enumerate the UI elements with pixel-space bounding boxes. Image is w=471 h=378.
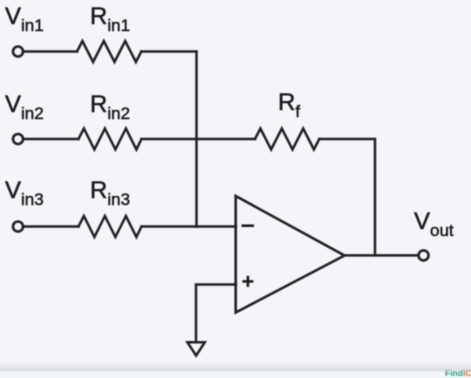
- wire Vin3 to Rin3: [24, 225, 79, 228]
- op-amp plus pin symbol: [242, 280, 253, 283]
- label Rin1: [90, 5, 130, 29]
- label Vin2: [5, 93, 44, 117]
- resistor R_in3: [79, 216, 142, 237]
- label Vin1: [5, 5, 44, 29]
- wire Rf to feedback corner: [319, 139, 375, 255]
- wire non-inverting input: [196, 285, 236, 343]
- resistor R_in1: [77, 41, 141, 62]
- wire Vin1 to Rin1: [24, 50, 78, 53]
- watermark: [445, 368, 471, 378]
- terminal Vout: [419, 250, 429, 260]
- terminal Vin2: [13, 134, 23, 144]
- label Vin3: [5, 179, 44, 203]
- wire bus vertical: [195, 52, 198, 227]
- terminal Vin1: [13, 47, 23, 57]
- wire Rin2 to bus and on to Rf: [142, 138, 256, 141]
- op-amp U1: [236, 196, 345, 313]
- label Rin3: [90, 179, 130, 203]
- label Rf: [278, 91, 300, 115]
- op-amp minus pin symbol: [242, 224, 255, 227]
- terminal Vin3: [13, 222, 23, 232]
- resistor R_f: [255, 129, 319, 150]
- wire Rin1 to node bus: [141, 50, 196, 53]
- wire Vin2 to Rin2: [24, 138, 79, 141]
- wire op-amp output to Vout: [344, 254, 419, 257]
- wire Rin3 to op-amp inverting input: [142, 225, 237, 228]
- label Vout: [414, 210, 454, 234]
- resistor R_in2: [79, 129, 142, 150]
- ground: [187, 342, 204, 355]
- label Rin2: [90, 93, 130, 117]
